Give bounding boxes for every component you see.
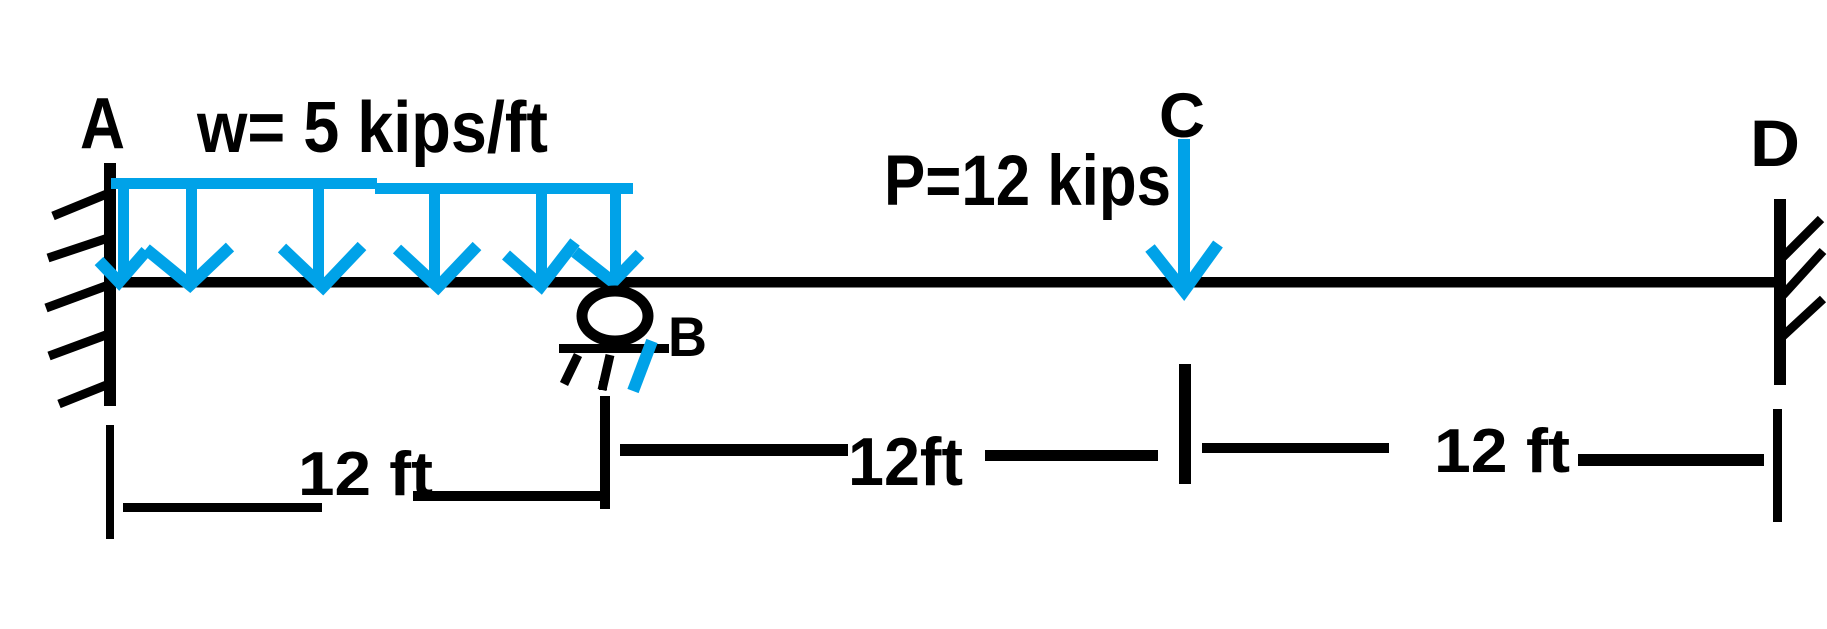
svg-text:w= 5 kips/ft: w= 5 kips/ft bbox=[196, 88, 548, 168]
distributed load arrowheads bbox=[99, 242, 640, 287]
beam A-D bbox=[104, 277, 1786, 288]
svg-text:12ft: 12ft bbox=[848, 424, 963, 500]
roller hatching at B bbox=[564, 355, 610, 390]
fixed support wall at A bbox=[104, 163, 116, 406]
dimension tick at B bbox=[599, 381, 610, 509]
svg-text:12 ft: 12 ft bbox=[1434, 417, 1570, 486]
label A bbox=[80, 84, 125, 164]
svg-text:C: C bbox=[1159, 81, 1205, 151]
svg-text:A: A bbox=[80, 84, 125, 164]
roller support at B bbox=[582, 291, 648, 341]
roller base line at B bbox=[559, 344, 669, 353]
dimension tick at A bbox=[106, 425, 114, 539]
distributed load arrow stems bbox=[118, 185, 621, 280]
load label w= 5 kips/ft bbox=[196, 88, 548, 168]
cyan hatch stroke at B bbox=[633, 341, 652, 391]
dimension text 12 ft (C-D) bbox=[1434, 417, 1570, 486]
label B bbox=[668, 305, 707, 368]
dimension line C-D left part bbox=[1202, 443, 1389, 453]
label D bbox=[1750, 106, 1800, 180]
svg-text:B: B bbox=[668, 305, 707, 368]
label C bbox=[1159, 81, 1205, 151]
dimension line C-D right part bbox=[1578, 454, 1764, 466]
dimension line A-B left part bbox=[123, 503, 322, 512]
svg-text:D: D bbox=[1750, 106, 1800, 180]
dimension line A-B right part bbox=[413, 491, 603, 501]
hatching at A bbox=[46, 191, 114, 404]
hatching at D bbox=[1783, 219, 1823, 336]
distributed load top bar bbox=[111, 178, 633, 194]
svg-text:P=12 kips: P=12 kips bbox=[884, 142, 1171, 221]
dimension line B-C right part bbox=[985, 450, 1158, 461]
fixed support wall at D bbox=[1774, 199, 1786, 385]
dimension line B-C left part bbox=[620, 444, 848, 456]
svg-text:12 ft: 12 ft bbox=[298, 440, 433, 509]
dimension tick at D bbox=[1773, 409, 1782, 522]
point load arrow at C bbox=[1178, 139, 1190, 281]
dimension text 12ft (B-C) bbox=[848, 424, 963, 500]
dimension text 12 ft (A-B) bbox=[298, 440, 433, 509]
dimension tick at C bbox=[1179, 364, 1191, 484]
load label P=12 kips bbox=[884, 142, 1171, 221]
